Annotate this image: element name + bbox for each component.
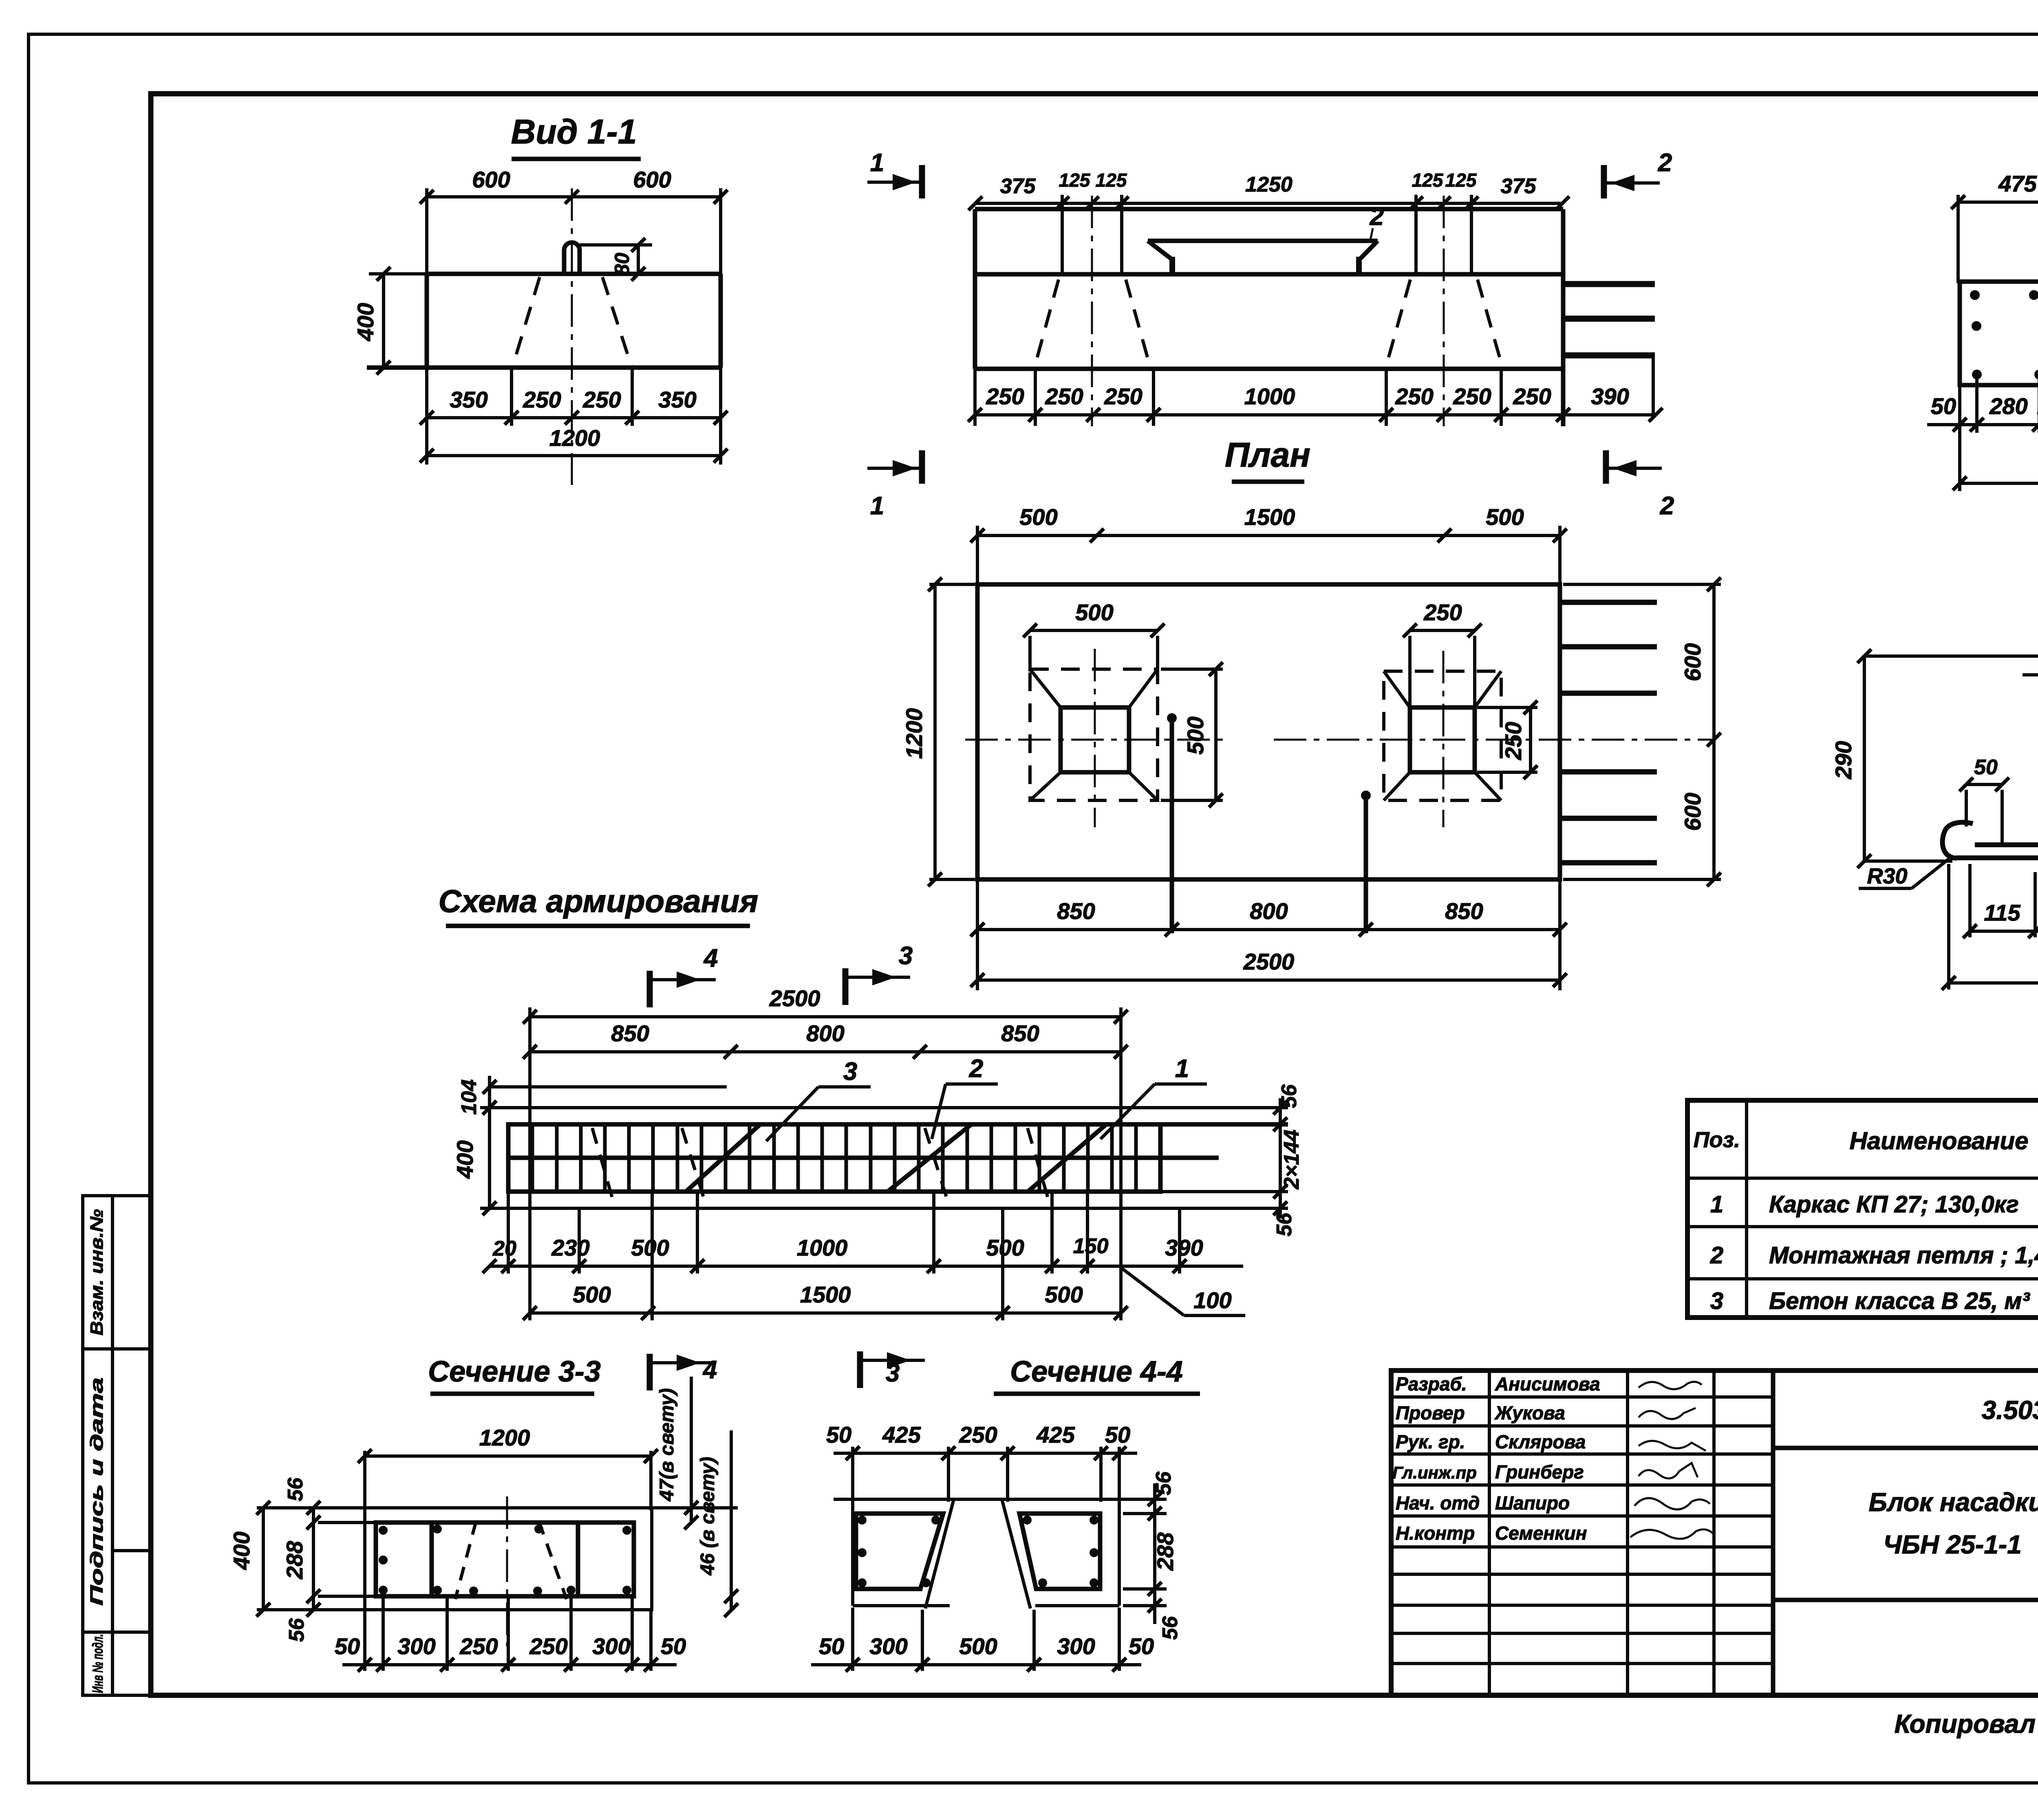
section 3-3 ext verticals bottom [365,1597,651,1671]
scheme dim 2500 [530,1007,1121,1320]
svg-text:600: 600 [1680,643,1705,681]
svg-text:Семенкин: Семенкин [1495,1523,1587,1544]
svg-text:Гринберг: Гринберг [1495,1461,1584,1483]
section 4-4 title underline [994,1392,1200,1396]
svg-text:390: 390 [1591,383,1629,409]
elevation 390 extension [1652,355,1655,418]
plan extension lines bottom [977,879,1560,990]
svg-text:1000: 1000 [797,1235,848,1260]
svg-text:850: 850 [1001,1020,1039,1046]
view 1-1 block outline [367,274,721,368]
svg-text:Бетон класса В 25, м³: Бетон класса В 25, м³ [1769,1288,2030,1314]
svg-text:56: 56 [285,1618,309,1642]
view 1-1 pile dashed edges [513,277,631,366]
svg-text:600: 600 [633,167,671,192]
section 3-3 stirrup legs [430,1523,434,1596]
plan adjacent bars right [1562,602,1657,863]
svg-text:300: 300 [1057,1633,1095,1659]
svg-text:46 (в свету): 46 (в свету) [697,1457,719,1575]
svg-text:Разраб.: Разраб. [1396,1373,1467,1395]
view 2-2 rebar dots top row [1970,290,2038,379]
section 3-3 dims 56/288/56 left [313,1508,376,1610]
svg-text:250: 250 [1453,383,1491,409]
svg-text:125: 125 [1412,170,1444,191]
elevation pile dashed edges left [1035,280,1502,364]
svg-text:500: 500 [1182,716,1208,754]
loop detail dim 410 [1949,864,2038,989]
svg-text:250: 250 [1513,383,1551,409]
svg-text:1: 1 [870,492,884,520]
scheme pile dashed edges [592,1128,1050,1206]
svg-text:Каркас КП 27; 130,0кг: Каркас КП 27; 130,0кг [1769,1191,2019,1218]
svg-text:Наименование: Наименование [1849,1127,2028,1155]
section 4-4 outline [834,1499,1137,1608]
view 2-2 extension lines bottom [1960,377,2038,491]
svg-text:3: 3 [843,1058,857,1086]
scheme dim 850/800/850 [530,1050,1121,1053]
section 3-3 dim 400 left [262,1508,265,1610]
svg-text:56: 56 [1277,1084,1301,1108]
section marker 2 top [1604,149,1672,198]
svg-text:400: 400 [452,1140,478,1179]
svg-text:2500: 2500 [1243,949,1295,974]
svg-text:425: 425 [1036,1422,1075,1448]
svg-text:50: 50 [819,1633,844,1659]
section 4-4 right dims 56/288/56 [1123,1483,1167,1624]
section marker 3 bottom [860,1351,925,1388]
svg-text:4: 4 [702,1356,717,1384]
loop detail dim 290 [1864,656,2038,861]
svg-text:250: 250 [1045,383,1083,409]
section 4-4 rebar dots [858,1516,1098,1587]
svg-text:Инв № подл.: Инв № подл. [89,1634,106,1693]
svg-text:1250: 1250 [1245,173,1292,196]
scheme block top line [490,1085,727,1088]
items table frame [1687,1100,2038,1318]
svg-text:Поз.: Поз. [1694,1128,1740,1152]
scheme dim row 500/1500/500 [530,1311,1121,1315]
svg-text:250: 250 [1395,383,1433,409]
svg-text:500: 500 [1045,1282,1083,1307]
cage stirrups [532,1124,1136,1192]
plan dim 2500 [977,978,1560,982]
svg-text:80: 80 [611,253,633,275]
svg-text:Схема армирования: Схема армирования [439,883,759,919]
svg-text:288: 288 [1152,1532,1178,1571]
label 2 leader [932,1084,998,1139]
svg-text:500: 500 [1486,504,1524,530]
scheme concrete top line [480,1106,1288,1109]
svg-text:3.503.1 - 79. 2 - 021: 3.503.1 - 79. 2 - 021 [1982,1395,2038,1425]
loop detail feet [1943,822,2038,869]
plan left pile dim 500 right [1161,669,1223,800]
svg-text:250: 250 [582,387,621,412]
view 2-2 dim row 50/280/120/300/120/280/50 [1927,423,2038,426]
svg-text:100: 100 [1193,1287,1231,1313]
svg-text:50: 50 [1105,1422,1130,1448]
svg-text:2: 2 [1660,492,1674,520]
svg-text:250: 250 [959,1422,997,1448]
view 1-1 extension lines below [512,369,632,426]
svg-text:2: 2 [1658,149,1672,177]
svg-text:150: 150 [1073,1234,1109,1258]
view 1-1 title underline [512,157,641,161]
svg-text:290: 290 [1831,741,1856,779]
cage top bar extension right [1160,1122,1288,1127]
view 2-2 dim 1200 [1960,482,2038,485]
svg-text:500: 500 [573,1282,611,1307]
svg-text:Рук. гр.: Рук. гр. [1396,1431,1465,1452]
view 1-1 dim 400 left [369,274,427,368]
label 100 with leader [1122,1268,1184,1315]
svg-text:56: 56 [1273,1212,1296,1236]
section 3-3 centerline [506,1496,508,1646]
svg-text:Вид 1-1: Вид 1-1 [511,112,637,151]
svg-text:2: 2 [1370,203,1384,231]
svg-text:375: 375 [1501,174,1537,198]
svg-text:280: 280 [1989,393,2027,419]
svg-text:50: 50 [661,1633,686,1659]
elevation bottom dim row 250x3/1000/250x3/390 [975,413,1656,416]
signatures [1630,1382,1714,1539]
plan rectangle [977,584,1560,879]
plan right pile dim 250 right [1477,707,1537,772]
scheme concrete bottom line [480,1207,1288,1210]
svg-text:250: 250 [1423,599,1462,625]
label 1 leader [1101,1084,1207,1139]
svg-text:1: 1 [870,149,884,177]
section 3-3 pile dashed edges [455,1521,567,1599]
section marker 1 top [867,149,922,198]
svg-text:850: 850 [611,1020,649,1046]
svg-text:500: 500 [1075,599,1113,625]
section 3-3 outline [365,1508,652,1610]
svg-text:Склярова: Склярова [1495,1431,1586,1452]
view 1-1 dim row 350/250/250/350 [427,416,721,419]
view 1-1 top dim 600+600 [427,188,721,465]
loop detail dim 115/120/115 [1970,864,2038,937]
svg-text:Гл.инж.пр: Гл.инж.пр [1392,1463,1477,1482]
svg-text:300: 300 [592,1633,630,1659]
svg-text:47(в свету): 47(в свету) [656,1388,678,1501]
svg-text:250: 250 [523,387,561,412]
elevation centerlines of piles [1091,196,1093,426]
scheme title underline [446,924,750,928]
svg-text:390: 390 [1165,1235,1203,1260]
plan dim row 850/800/850 [977,928,1560,931]
svg-text:3: 3 [899,942,913,970]
svg-text:3: 3 [1710,1288,1723,1314]
cage mid bar [508,1156,1219,1160]
section 3-3 bottom dims 50/300/250/250/300/50 [342,1663,677,1666]
svg-text:Анисимова: Анисимова [1495,1373,1600,1395]
section 3-3 stirrup frame [376,1523,634,1596]
view 2-2 top dim 475/250/475 [1958,195,2038,283]
elevation loop 2 lying flat [1148,228,1378,273]
svg-text:850: 850 [1057,898,1095,924]
svg-text:20: 20 [492,1237,516,1260]
loop detail axis line through arch [2023,673,2038,676]
section marker 4 top [650,944,718,1007]
plan loop position marks [1172,717,1366,933]
margin stamp table left [83,1196,151,1695]
svg-text:Нач. отд: Нач. отд [1396,1492,1480,1514]
svg-text:230: 230 [551,1235,589,1260]
plan left pile centerline vertical [1094,649,1096,827]
view 1-1 dim 80 [580,245,652,274]
svg-text:56: 56 [1152,1471,1176,1495]
svg-text:1200: 1200 [901,708,927,759]
svg-text:Сечение 3-3: Сечение 3-3 [428,1355,601,1388]
svg-text:475: 475 [1998,171,2037,196]
svg-text:Шапиро: Шапиро [1495,1492,1570,1514]
scheme left dims 104 / 400 [488,1076,491,1208]
svg-text:Монтажная петля ; 1,4кг: Монтажная петля ; 1,4кг [1769,1242,2038,1269]
svg-text:1500: 1500 [800,1282,851,1307]
elevation block outline [975,209,1563,426]
svg-text:104: 104 [457,1080,481,1115]
svg-text:300: 300 [869,1633,907,1659]
svg-text:425: 425 [882,1422,921,1448]
svg-text:50: 50 [1931,393,1956,419]
svg-text:4: 4 [703,944,718,972]
plan centerline horizontal [965,739,1227,741]
plan left pile dim 500 top [1030,630,1158,672]
section marker 4 bottom [650,1354,717,1390]
svg-text:56: 56 [284,1477,307,1501]
svg-text:375: 375 [1000,174,1036,198]
svg-text:Копировал Кщ-: Копировал Кщ- [1895,1709,2038,1738]
section marker 2 bottom [1606,450,1674,520]
svg-text:500: 500 [1019,504,1057,530]
svg-text:250: 250 [459,1633,498,1659]
svg-text:250: 250 [1104,383,1142,409]
svg-text:1000: 1000 [1244,383,1295,409]
svg-text:350: 350 [658,387,696,412]
svg-text:Н.контр: Н.контр [1396,1523,1475,1544]
section 3-3 ext lines left [257,1508,738,1610]
plan right pile corner slants [1384,671,1501,800]
svg-text:115: 115 [1984,900,2020,925]
svg-text:2×144: 2×144 [1280,1130,1304,1190]
section 4-4 ext verticals bottom [853,1608,1119,1671]
svg-text:500: 500 [959,1633,997,1659]
svg-text:Провер: Провер [1396,1402,1465,1423]
svg-text:250: 250 [986,383,1024,409]
plan left pile inner square [1061,707,1129,772]
scheme right dim line [1279,1098,1282,1218]
svg-text:Подпись и дата: Подпись и дата [87,1377,107,1606]
bent bar 1 [1029,1125,1106,1191]
svg-text:125: 125 [1096,170,1127,191]
section 3-3 dim 1200 [365,1451,651,1510]
svg-text:1200: 1200 [549,425,600,451]
section 3-3 rebar dots [379,1525,631,1595]
svg-text:500: 500 [631,1235,669,1260]
svg-text:250: 250 [529,1633,567,1659]
svg-text:400: 400 [229,1531,254,1570]
svg-text:800: 800 [806,1020,844,1046]
svg-text:600: 600 [1680,793,1705,831]
plan right pile dim 250 top [1410,630,1475,710]
svg-text:2: 2 [969,1055,983,1083]
section marker 3 top [845,942,913,1005]
svg-text:ЧБН 25-1-1: ЧБН 25-1-1 [1883,1530,2022,1559]
section 3-3 title underline [430,1392,594,1396]
plan right pile footprint dashed [1384,671,1501,800]
elevation adjacent bars right [1565,284,1655,355]
svg-text:350: 350 [450,387,487,412]
svg-text:50: 50 [1129,1633,1154,1659]
svg-text:850: 850 [1445,898,1483,924]
svg-text:600: 600 [472,167,510,192]
plan right pile inner square [1410,707,1475,772]
svg-text:2: 2 [1710,1242,1723,1269]
elevation extension lines below [975,369,1501,426]
svg-text:Блок насадки: Блок насадки [1869,1487,2038,1517]
svg-text:56: 56 [1158,1616,1182,1640]
section 3-3 dim 46 в свету [730,1430,733,1610]
plan right dim 600/600 [1563,584,1721,879]
svg-text:2500: 2500 [769,985,820,1011]
plan top dim 500/1500/500 [977,534,1560,537]
plan left pile corner slants [1030,669,1158,800]
svg-text:250: 250 [1500,722,1526,760]
bent bar 2 [889,1125,971,1191]
section 4-4 right stirrup [1019,1514,1100,1589]
svg-text:800: 800 [1250,898,1288,924]
section 4-4 bottom dims 50/300/500/300/50 [811,1663,1141,1666]
label 3 leader [766,1087,871,1141]
svg-text:1200: 1200 [479,1425,530,1450]
svg-text:50: 50 [335,1633,360,1659]
plan left pile footprint dashed [1030,669,1158,800]
label R30 bottom left with leader [1912,859,1949,888]
svg-text:400: 400 [353,303,378,341]
svg-text:1: 1 [1710,1191,1723,1218]
svg-text:3: 3 [886,1359,900,1387]
elevation top dim row 375/125/125/1250/125/125/375 [975,202,1562,205]
svg-text:288: 288 [282,1540,307,1579]
scheme dim row 20/230/500/1000/500/150/390 [490,1265,1243,1268]
svg-text:Взам. инв.№: Взам. инв.№ [87,1209,107,1335]
plan right pile centerline vertical [1442,651,1445,827]
cage frame [508,1124,1160,1192]
svg-text:Сечение 4-4: Сечение 4-4 [1010,1355,1183,1388]
section marker 1 bottom [867,450,922,520]
svg-text:План: План [1225,436,1310,474]
section 3-3 dim 47 в свету [690,1377,693,1523]
svg-text:1500: 1500 [1244,504,1295,530]
svg-text:500: 500 [986,1235,1024,1260]
svg-text:125: 125 [1445,170,1477,191]
plan title underline [1232,480,1304,484]
section 4-4 left stirrup [856,1514,943,1589]
section 4-4 top dims 50/425/250/425/50 [834,1447,1137,1502]
title block frame [1391,1371,2038,1695]
view 2-2 block outline [1960,282,2038,385]
cage bottom ext line right [1160,1190,1288,1193]
bent bar 3 [687,1125,760,1191]
svg-text:50: 50 [826,1422,851,1448]
svg-text:Жукова: Жукова [1494,1402,1565,1423]
svg-text:1: 1 [1175,1055,1189,1083]
svg-text:R30: R30 [1867,864,1907,888]
plan left dim 1200 [929,526,1560,879]
view 1-1 centerline [571,188,573,485]
view 1-1 dim 1200 [427,454,721,457]
svg-text:300: 300 [397,1633,435,1659]
svg-text:125: 125 [1059,170,1091,191]
svg-text:50: 50 [1974,756,1998,779]
loop detail dim 50 left [1966,784,2002,843]
view 1-1 lifting loop 2 [564,242,580,274]
scheme extension verticals below cage [508,1192,1180,1320]
